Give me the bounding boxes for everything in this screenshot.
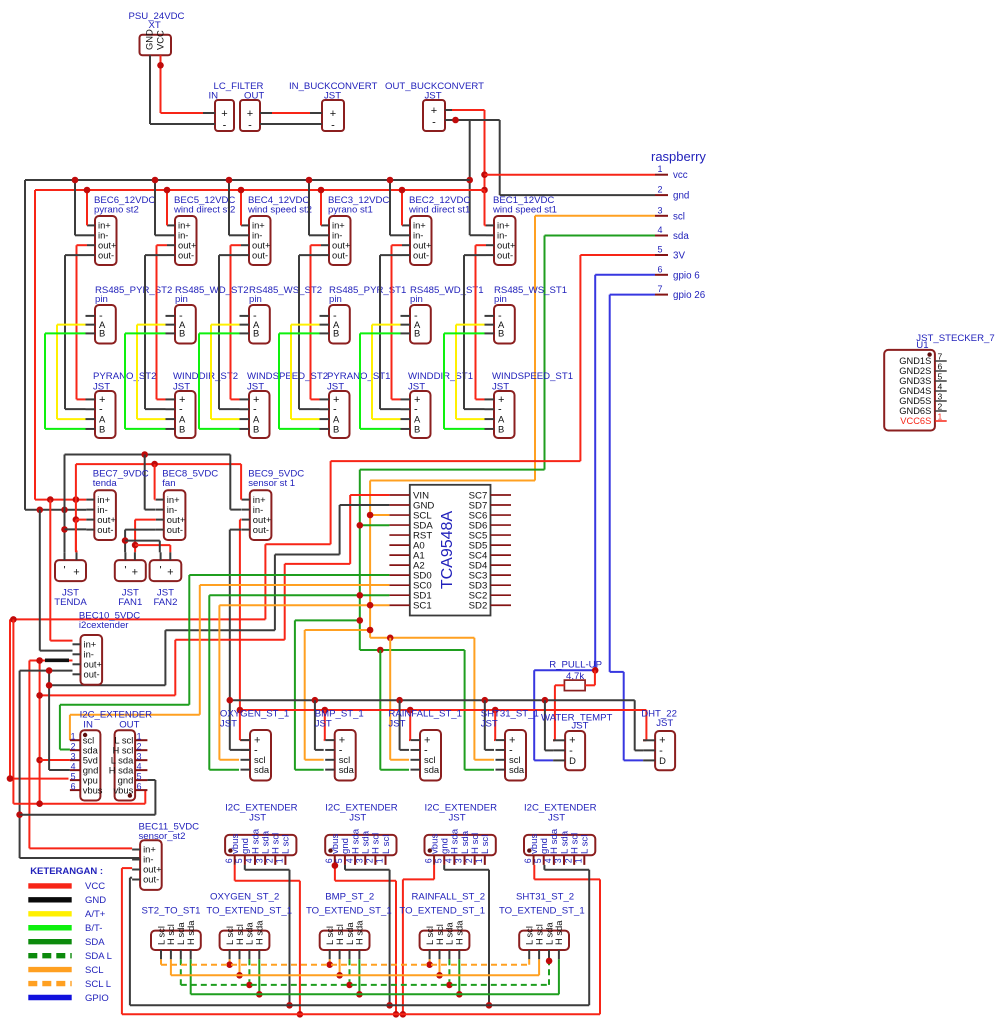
wire TCA SDA tap [360,524,390,526]
wire BEC3_12VDC in+ [320,190,322,225]
svg-text:SDA L: SDA L [85,951,112,962]
junction gnd bus col3 [306,177,313,184]
junction st2 bus [456,991,463,998]
wire SCL to RAINFALL [390,638,409,760]
wire TO_EXTEND_ST_1 pin3 to bus [548,959,550,985]
svg-text:+: + [330,108,336,120]
svg-text:7: 7 [938,352,943,362]
svg-text:3: 3 [354,858,364,863]
wire SHT31 + drop [494,710,495,740]
junction vbus bus 1 [297,1011,304,1018]
svg-text:5: 5 [433,858,443,863]
junction 3V to vbus branch [10,616,17,623]
svg-text:B: B [99,328,105,339]
wire A yellow col3 [291,325,320,420]
junction black bus BEC1 [466,177,473,184]
wire BEC10 out- net [20,671,141,858]
wire PSU GND to LC_FILTER IN- [150,55,203,124]
svg-text:1: 1 [938,412,943,422]
wire sensor gnd bus [230,700,643,750]
wire extender OUT gnd to BEC11 [20,780,156,815]
svg-text:scl: scl [673,211,685,222]
svg-text:3V: 3V [673,251,685,262]
wire raspberry gpio 26 [610,295,655,761]
svg-text:1: 1 [71,731,76,741]
connector JST_STECKER_7 U1 [884,333,994,431]
regulator BEC2_12VDC (wind direct st1) [402,195,470,265]
connector BMP_ST_2 [306,892,392,960]
junction vcc bus BEC8 [151,461,158,468]
svg-text:out-: out- [167,524,183,535]
svg-text:WINDDIR_ST2: WINDDIR_ST2 [173,371,238,382]
svg-text:pin: pin [329,294,342,305]
wire BEC7 out- tap [65,528,87,530]
svg-text:2: 2 [365,858,375,863]
svg-text:B: B [333,328,339,339]
svg-text:GPIO: GPIO [85,993,109,1004]
junction st2 bus [326,961,333,968]
junction SCL [367,512,374,519]
wire raspberry 3V [10,255,655,779]
wire ST2_TO_ST1 pin1 to bus [160,959,162,964]
wire RAINFALL - drop [400,700,409,750]
wire BEC10 in+ [50,500,72,641]
junction SDA bus SD1 [357,592,364,599]
svg-text:B: B [414,423,420,434]
junction st2 bus [346,982,353,989]
junction gnd bus col2 [226,177,233,184]
svg-text:IN: IN [83,719,93,730]
wire B green col2 [199,333,240,429]
wire B green col1 [125,333,166,429]
junction TCA VIN tap [36,692,43,699]
wire A yellow col2 [211,325,240,420]
junction vcc out+ BEC7 [73,516,80,523]
junction vcc bus col4 [399,187,406,194]
wire BEC4_12VDC out+ to JST [231,245,242,399]
svg-text:WINDSPEED_ST2: WINDSPEED_ST2 [247,371,328,382]
svg-text:L scl: L scl [480,835,491,854]
wire bottom gnd bus [130,1004,589,1006]
svg-text:+: + [167,567,173,579]
svg-text:sda: sda [509,764,525,775]
junction out- to gnd riser [46,667,53,674]
wire TCA SC0 to extender [70,585,390,740]
junction st2 bus [256,991,263,998]
svg-text:JST: JST [449,813,466,824]
svg-text:B: B [333,423,339,434]
wire JST1 gnd drop [245,865,290,1005]
svg-text:sda: sda [254,764,270,775]
wire raspberry sda [360,236,655,651]
wire BEC10 in- [40,510,73,651]
svg-text:1: 1 [474,858,484,863]
svg-text:ST2_TO_ST1: ST2_TO_ST1 [142,906,201,917]
svg-text:TENDA: TENDA [54,597,87,608]
multiplexer U TCA9548A [389,485,511,616]
wire SCL L bus [161,964,529,966]
wire BEC9 in+ drop [240,464,242,500]
svg-text:SCL L: SCL L [85,979,111,990]
svg-text:+: + [247,108,253,120]
svg-text:B: B [414,328,420,339]
connector JST FAN2 [150,552,182,608]
wire JST2 vbus drop [335,865,396,1014]
wire SCL bus [171,974,539,976]
wire BEC9 out- to sensor bus [230,530,250,750]
wire SDA tap to BMP [295,620,360,769]
svg-text:4: 4 [137,762,142,772]
connector WINDSPEED_ST1 JST [485,371,574,438]
svg-text:pin: pin [249,294,262,305]
svg-text:3: 3 [454,858,464,863]
svg-text:wind speed st2: wind speed st2 [247,205,312,216]
svg-text:vbus: vbus [83,785,103,796]
wire SDA distribution [360,650,494,770]
svg-text:out-: out- [97,524,113,535]
wire BEC3_12VDC in- [309,180,321,235]
junction st2 bus [426,961,433,968]
svg-text:KETERANGAN :: KETERANGAN : [30,866,103,877]
wire JST4 gnd drop [544,865,589,1005]
svg-text:pin: pin [95,294,108,305]
svg-text:JST: JST [349,813,366,824]
filter LC_FILTER IN [203,81,264,132]
svg-text:TO_EXTEND_ST_1: TO_EXTEND_ST_1 [306,906,392,917]
junction sensor gnd bus [542,697,549,704]
connector DHT_22 JST [641,709,677,771]
wire BEC2_12VDC out+ to JST [392,245,403,399]
wire TO_EXTEND_ST_1 pin3 to bus [448,959,450,985]
wire BEC5_12VDC out+ to JST [157,245,168,399]
wire TCA SD0 to extender [60,575,390,750]
junction SCL bus SC1 [367,602,374,609]
connector WINDSPEED_ST2 JST [240,371,329,438]
svg-text:A/T+: A/T+ [85,909,106,920]
svg-text:VCC6S: VCC6S [900,416,931,426]
junction TCA GND tap [46,682,53,689]
svg-text:FAN1: FAN1 [118,597,142,608]
wire TO_EXTEND_ST_1 pin4 to bus [458,959,460,994]
regulator BEC8_5VDC (fan) [156,468,218,540]
svg-text:out-: out- [497,249,513,260]
wire BEC2_12VDC in+ [401,190,403,225]
connector RS485_WS_ST2 (pin) [240,285,323,344]
svg-text:JST: JST [315,719,332,730]
junction sensor vcc bus [492,707,499,714]
junction gnd bus 2 [386,1002,393,1009]
svg-text:3: 3 [938,392,943,402]
svg-text:': ' [124,565,126,577]
wire TO_EXTEND_ST_1 pin3 to bus [349,959,351,985]
legend KETERANGAN [28,866,112,1004]
junction vcc riser [73,496,80,503]
connector SHT31_ST_2 [499,892,585,960]
svg-text:fan: fan [162,478,175,489]
wire TO_EXTEND_ST_1 pin4 to bus [558,959,560,994]
pin 7 raspberry gpio 26 [655,284,706,301]
junction sensor gnd bus [227,697,234,704]
wire TO_EXTEND_ST_1 pin4 to bus [358,959,360,994]
wire LC_FILTER OUT- to IN_BUCKCONVERT [272,123,310,125]
connector I2C_EXTENDER IN/OUT [70,710,152,801]
svg-text:': ' [63,565,65,577]
wire PSU VCC to LC_FILTER IN+ [161,55,204,113]
junction st2 bus [226,961,233,968]
connector WATER_TEMPT JST [541,712,613,770]
svg-text:B/T-: B/T- [85,923,102,934]
wire BEC1_12VDC out- to JST [464,255,486,409]
junction sensor vcc bus [322,707,329,714]
pin 2 raspberry gnd [655,185,689,202]
svg-text:L scl: L scl [281,835,292,854]
svg-text:out-: out- [413,249,429,260]
wire SDA L bus [181,984,549,986]
svg-text:6: 6 [423,858,433,863]
junction vcc bus col0 [84,187,91,194]
svg-text:D: D [659,755,666,766]
junction gnd bus BEC8 [141,451,148,458]
wire ST2_TO_ST1 pin3 to bus [180,959,182,985]
wire SCL distribution [370,638,494,760]
svg-text:out-: out- [98,249,114,260]
svg-text:-: - [223,120,227,132]
wire RAINFALL + drop [409,710,410,740]
svg-text:gnd: gnd [673,191,689,202]
connector RS485_WD_ST2 (pin) [166,285,249,344]
wire raspberry vcc [485,174,656,176]
junction SCL rainfall [387,635,394,642]
wire BEC11 in+ stub link [29,847,132,849]
svg-text:6: 6 [71,781,76,791]
wire BEC6_12VDC in- [75,180,87,235]
junction JST2 vbus stub [332,862,339,869]
junction on SHT31 L sda wire [546,958,553,965]
svg-text:+: + [221,108,227,120]
svg-text:4: 4 [543,858,553,863]
svg-text:JST: JST [571,721,588,732]
wire WATER - drop [545,700,553,750]
wire JST2 gnd drop [345,865,390,1005]
svg-text:B: B [498,328,504,339]
svg-text:SC1: SC1 [413,601,432,612]
svg-text:B: B [498,423,504,434]
junction vcc bus col2 [238,187,245,194]
svg-text:sda: sda [424,764,440,775]
wire TO_EXTEND_ST_1 pin2 to bus [339,959,341,975]
junction out+ to 5vd riser [36,657,43,664]
svg-text:1: 1 [137,732,142,742]
svg-text:GND4S: GND4S [899,386,931,396]
junction gnd to BEC10 [37,507,44,514]
svg-text:GND6S: GND6S [899,406,931,416]
wire BEC4_12VDC in- [229,180,241,235]
regulator BEC5_12VDC (wind direct st2) [167,195,235,265]
wire bottom vcc bus [122,1013,600,1015]
wire vcc feed BEC7 row [35,499,86,501]
junction vcc bus col1 [164,187,171,194]
pin 5 raspberry 3V [655,245,685,262]
svg-text:B: B [253,328,259,339]
svg-text:4: 4 [244,858,254,863]
svg-text:JST: JST [548,813,565,824]
wire B green col5 [444,333,485,429]
wire BEC1_12VDC in+ [485,190,487,225]
wire BEC7 out+ tap [76,519,86,521]
wire B green col0 [45,333,86,429]
junction gnd bus 1 [286,1002,293,1009]
svg-text:R_PULL-UP: R_PULL-UP [549,660,602,671]
svg-text:RAINFALL_ST_2: RAINFALL_ST_2 [412,892,486,903]
svg-text:H sda: H sda [354,920,365,945]
wire A yellow col5 [456,325,485,420]
pin 6 raspberry gpio 6 [655,264,700,281]
wire TO_EXTEND_ST_1 pin1 to bus [229,959,231,964]
junction st2 bus [436,972,443,979]
wire SHT31 - drop [485,700,494,750]
wire BEC9 in- drop [230,455,241,510]
connector IN_BUCKCONVERT JST [289,81,377,132]
svg-text:1: 1 [375,858,385,863]
wire fan2 vcc branch [135,545,170,552]
svg-text:1: 1 [574,858,584,863]
svg-text:6: 6 [137,782,142,792]
junction SDA [357,522,364,529]
connector RS485_WS_ST1 (pin) [485,285,568,344]
svg-text:TO_EXTEND_ST_1: TO_EXTEND_ST_1 [499,906,585,917]
wire A yellow col4 [372,325,401,420]
junction sensor gnd bus [396,697,403,704]
wire BEC8 in+ drop [154,464,157,500]
wire gnd feed BEC7 row [25,509,86,511]
connector I2C_EXTENDER JST 1 [224,802,298,865]
wire BMP + drop [324,710,325,740]
junction vpu tap [7,775,14,782]
svg-text:GND3S: GND3S [899,376,931,386]
svg-text:B: B [179,423,185,434]
wire BEC6_12VDC in+ [86,190,88,225]
wire BEC11 out- to gnd bottom bus [130,878,132,1006]
connector OXYGEN_ST_2 [206,892,292,960]
svg-text:L scl: L scl [381,835,392,854]
wire TENDA + feed [75,520,78,553]
regulator BEC3_12VDC (pyrano st1) [321,195,389,265]
connector I2C_EXTENDER JST 2 [324,802,398,865]
svg-text:OUT: OUT [119,719,139,730]
pin 1 raspberry vcc [655,164,688,181]
wire TCA SC1 to OXYGEN scl [219,605,389,760]
svg-text:1: 1 [657,164,662,174]
svg-text:B: B [179,328,185,339]
junction st2 bus [236,972,243,979]
wire OUT_BUCKCONVERT - to raspberry gnd [452,120,655,195]
wire TCA SCL tap [370,514,389,516]
connector SHT31_ST_1 JST [481,709,539,781]
wire BEC9 out+ to sensor bus [240,520,250,741]
svg-text:B: B [99,423,105,434]
svg-text:BMP_ST_2: BMP_ST_2 [325,892,374,903]
wire BEC11 out+ to vcc bottom bus [122,868,132,1014]
svg-text:3: 3 [553,858,563,863]
svg-text:4: 4 [657,225,662,235]
svg-text:TCA9548A: TCA9548A [439,511,456,590]
svg-text:JST: JST [656,718,673,729]
regulator BEC7_9VDC (tenda) [86,468,148,540]
svg-text:WINDSPEED_ST1: WINDSPEED_ST1 [492,371,573,382]
svg-text:5: 5 [71,771,76,781]
svg-text:-: - [331,120,335,132]
wire JST3 vbus drop [403,865,434,1014]
junction sensor vcc bus [407,707,414,714]
wire SCL tap to BMP [305,630,370,760]
connector RS485_WD_ST1 (pin) [401,285,484,344]
connector PYRANO_ST1 JST [320,371,391,438]
svg-text:+: + [73,567,79,579]
svg-text:2: 2 [71,741,76,751]
svg-text:2: 2 [464,858,474,863]
junction sensor gnd bus [312,697,319,704]
connector WINDDIR_ST2 JST [166,371,239,438]
svg-text:': ' [160,565,162,577]
connector RS485_PYR_ST2 (pin) [86,285,173,344]
svg-text:5: 5 [533,858,543,863]
wire BEC1_12VDC in- [470,234,486,236]
connector RAINFALL_ST_2 [399,892,485,960]
svg-text:sensor st 1: sensor st 1 [248,478,295,489]
wire BEC8 in- drop [145,455,156,510]
junction SDA rainfall [377,647,384,654]
junction vbus bus 2 [393,1011,400,1018]
svg-text:2: 2 [938,402,943,412]
svg-text:2: 2 [137,742,142,752]
connector I2C_EXTENDER JST 3 [423,802,497,865]
svg-text:4: 4 [444,858,454,863]
wire gnd riser to BEC8/9 [65,455,231,553]
connector PYRANO_ST2 JST [86,371,157,438]
wire LC_FILTER OUT+ to IN_BUCKCONVERT [272,112,310,114]
svg-text:3: 3 [657,205,662,215]
svg-text:4: 4 [344,858,354,863]
wire sensor vcc bus [240,710,647,740]
wire BEC11 in- stub link [20,857,133,859]
svg-text:2: 2 [264,858,274,863]
wire gnd branch down to black bus [469,120,471,235]
connector RS485_PYR_ST1 (pin) [320,285,407,344]
svg-text:L scl: L scl [580,835,591,854]
junction st2 bus [336,972,343,979]
svg-text:4: 4 [71,761,76,771]
svg-text:SHT31_ST_2: SHT31_ST_2 [516,892,574,903]
wire BMP - drop [315,700,324,750]
svg-text:pin: pin [175,294,188,305]
svg-text:pyrano st2: pyrano st2 [94,205,139,216]
wire 3V vbus drop [12,619,14,803]
connector JST FAN1 [115,552,146,608]
wire TO_EXTEND_ST_1 pin2 to bus [439,959,441,975]
wire OUT_BUCKCONVERT + down to red bus [452,110,485,225]
svg-text:6: 6 [938,362,943,372]
wire JST4 vbus drop [534,865,600,1014]
svg-text:SCL: SCL [85,965,103,976]
wire R right lead to gpio6 [585,670,595,685]
svg-text:-: - [432,117,436,129]
junction fan gnd split [122,537,129,544]
junction red bus BEC1 [481,187,488,194]
svg-text:6: 6 [657,264,662,274]
wire TCA VIN from BEC10 out+ [40,495,390,695]
junction gnd bus col1 [152,177,159,184]
junction sensor vcc bus [237,707,244,714]
